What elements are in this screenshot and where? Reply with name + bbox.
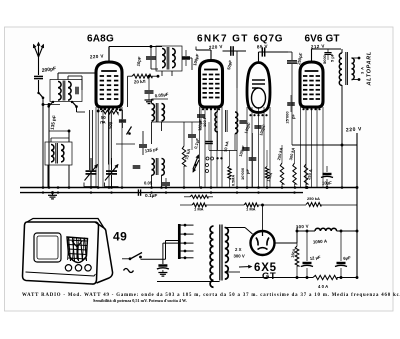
- svg-text:Sensibilità di potenza 0,51 mV: Sensibilità di potenza 0,51 mV. Potenza …: [93, 298, 187, 303]
- svg-text:pF: pF: [291, 114, 296, 119]
- svg-text:4 0 А: 4 0 А: [318, 284, 328, 289]
- svg-text:0.1µF: 0.1µF: [145, 193, 157, 199]
- svg-text:500: 500: [108, 121, 114, 129]
- svg-text:20 kЛ: 20 kЛ: [134, 79, 146, 85]
- svg-text:1050 А: 1050 А: [313, 238, 328, 244]
- svg-text:300 V: 300 V: [234, 254, 245, 259]
- svg-text:1 МА: 1 МА: [246, 207, 256, 212]
- svg-text:25'000: 25'000: [285, 111, 290, 124]
- svg-text:220 V: 220 V: [346, 126, 363, 133]
- svg-text:6A8G: 6A8G: [87, 34, 114, 45]
- svg-text:250 kА: 250 kА: [307, 196, 320, 201]
- svg-text:220 V: 220 V: [209, 44, 224, 50]
- svg-text:5000: 5000: [322, 54, 327, 64]
- svg-text:1 МА: 1 МА: [194, 207, 204, 212]
- svg-text:3 A: 3 A: [360, 66, 365, 74]
- svg-text:2 X: 2 X: [235, 247, 242, 252]
- svg-text:GT: GT: [262, 271, 276, 282]
- svg-text:6Q7G: 6Q7G: [254, 34, 284, 45]
- svg-text:160pF: 160pF: [197, 119, 203, 132]
- svg-text:6µF: 6µF: [343, 255, 351, 261]
- svg-text:ALTOPARL: ALTOPARL: [367, 51, 373, 86]
- svg-text:0.5MА: 0.5MА: [232, 175, 236, 186]
- svg-text:pF: pF: [245, 169, 250, 174]
- svg-text:300 V: 300 V: [296, 224, 309, 230]
- svg-text:6NK7 GT: 6NK7 GT: [197, 34, 249, 45]
- svg-text:220 V: 220 V: [90, 53, 105, 59]
- svg-text:WATT RADIO - Mod. WATT 49 - Ga: WATT RADIO - Mod. WATT 49 - Gamme: onde …: [22, 293, 400, 298]
- svg-text:49: 49: [113, 230, 127, 244]
- svg-text:0.05: 0.05: [144, 180, 153, 185]
